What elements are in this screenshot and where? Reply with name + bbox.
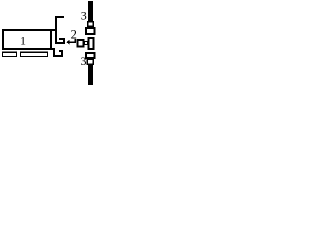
valve body	[89, 38, 94, 49]
right foot	[21, 52, 48, 56]
lower socket wide	[86, 53, 95, 58]
wire vertical pipe	[55, 16, 57, 44]
chamber box 1	[2, 29, 57, 50]
svg-text:3: 3	[81, 54, 87, 68]
valve branch box	[78, 40, 84, 47]
lower socket narrow	[87, 59, 93, 64]
valve branch neck	[85, 42, 88, 45]
electrode bar top 3	[88, 1, 93, 22]
left foot	[3, 52, 17, 56]
svg-text:1: 1	[20, 34, 26, 48]
wire pipe top stub	[55, 16, 64, 18]
upper outlet nozzle	[55, 38, 65, 44]
electrode bar bottom 3	[88, 65, 93, 86]
upper socket narrow	[88, 22, 94, 27]
upper socket wide	[86, 28, 95, 34]
svg-text:3: 3	[81, 8, 87, 22]
arrow leader for 2	[66, 39, 76, 45]
lower outlet nozzle	[53, 50, 63, 57]
